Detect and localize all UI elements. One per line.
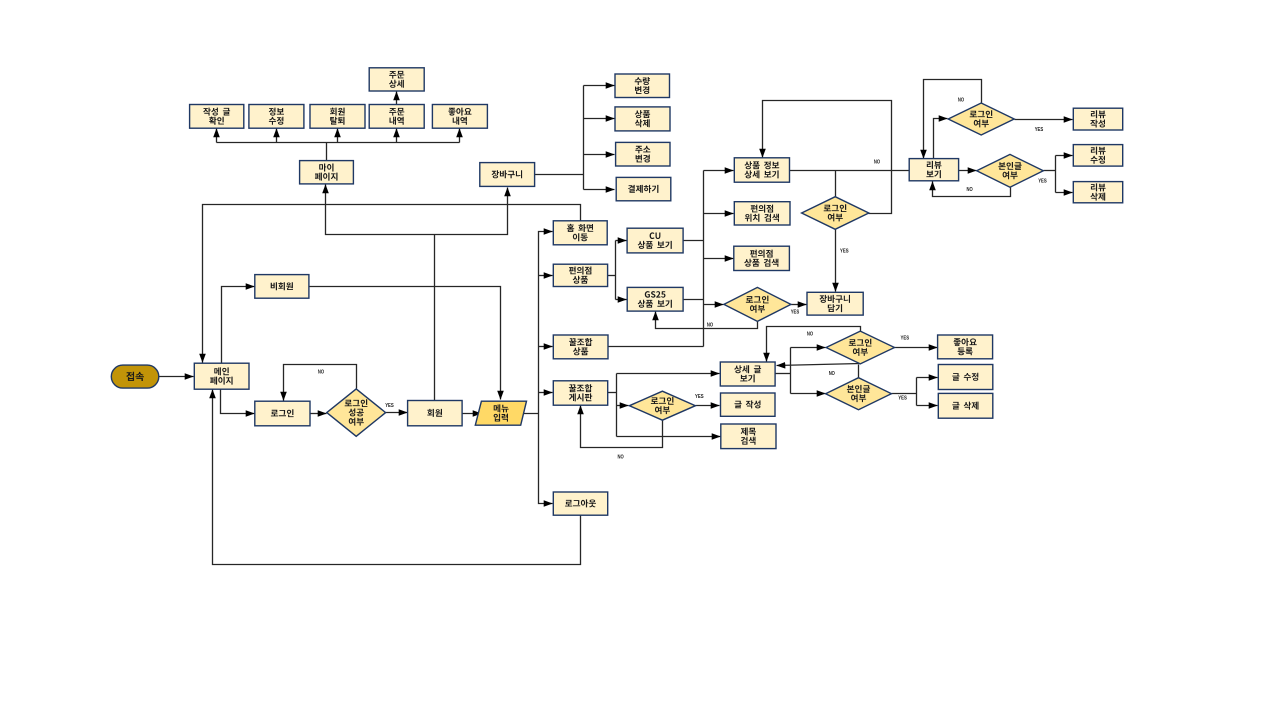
- svg-text:YES: YES: [695, 394, 704, 400]
- svg-text:NO: NO: [967, 187, 973, 193]
- svg-text:NO: NO: [874, 160, 880, 166]
- svg-text:NO: NO: [318, 369, 324, 375]
- svg-text:YES: YES: [898, 396, 907, 402]
- svg-text:YES: YES: [1035, 127, 1044, 133]
- svg-text:NO: NO: [829, 371, 835, 377]
- svg-text:NO: NO: [807, 332, 813, 338]
- svg-text:YES: YES: [791, 310, 800, 316]
- svg-text:YES: YES: [901, 336, 910, 342]
- svg-text:NO: NO: [618, 454, 624, 460]
- svg-text:YES: YES: [385, 403, 394, 409]
- svg-text:YES: YES: [840, 249, 849, 255]
- svg-text:NO: NO: [958, 98, 964, 104]
- svg-text:NO: NO: [707, 322, 713, 328]
- svg-text:YES: YES: [1038, 179, 1047, 185]
